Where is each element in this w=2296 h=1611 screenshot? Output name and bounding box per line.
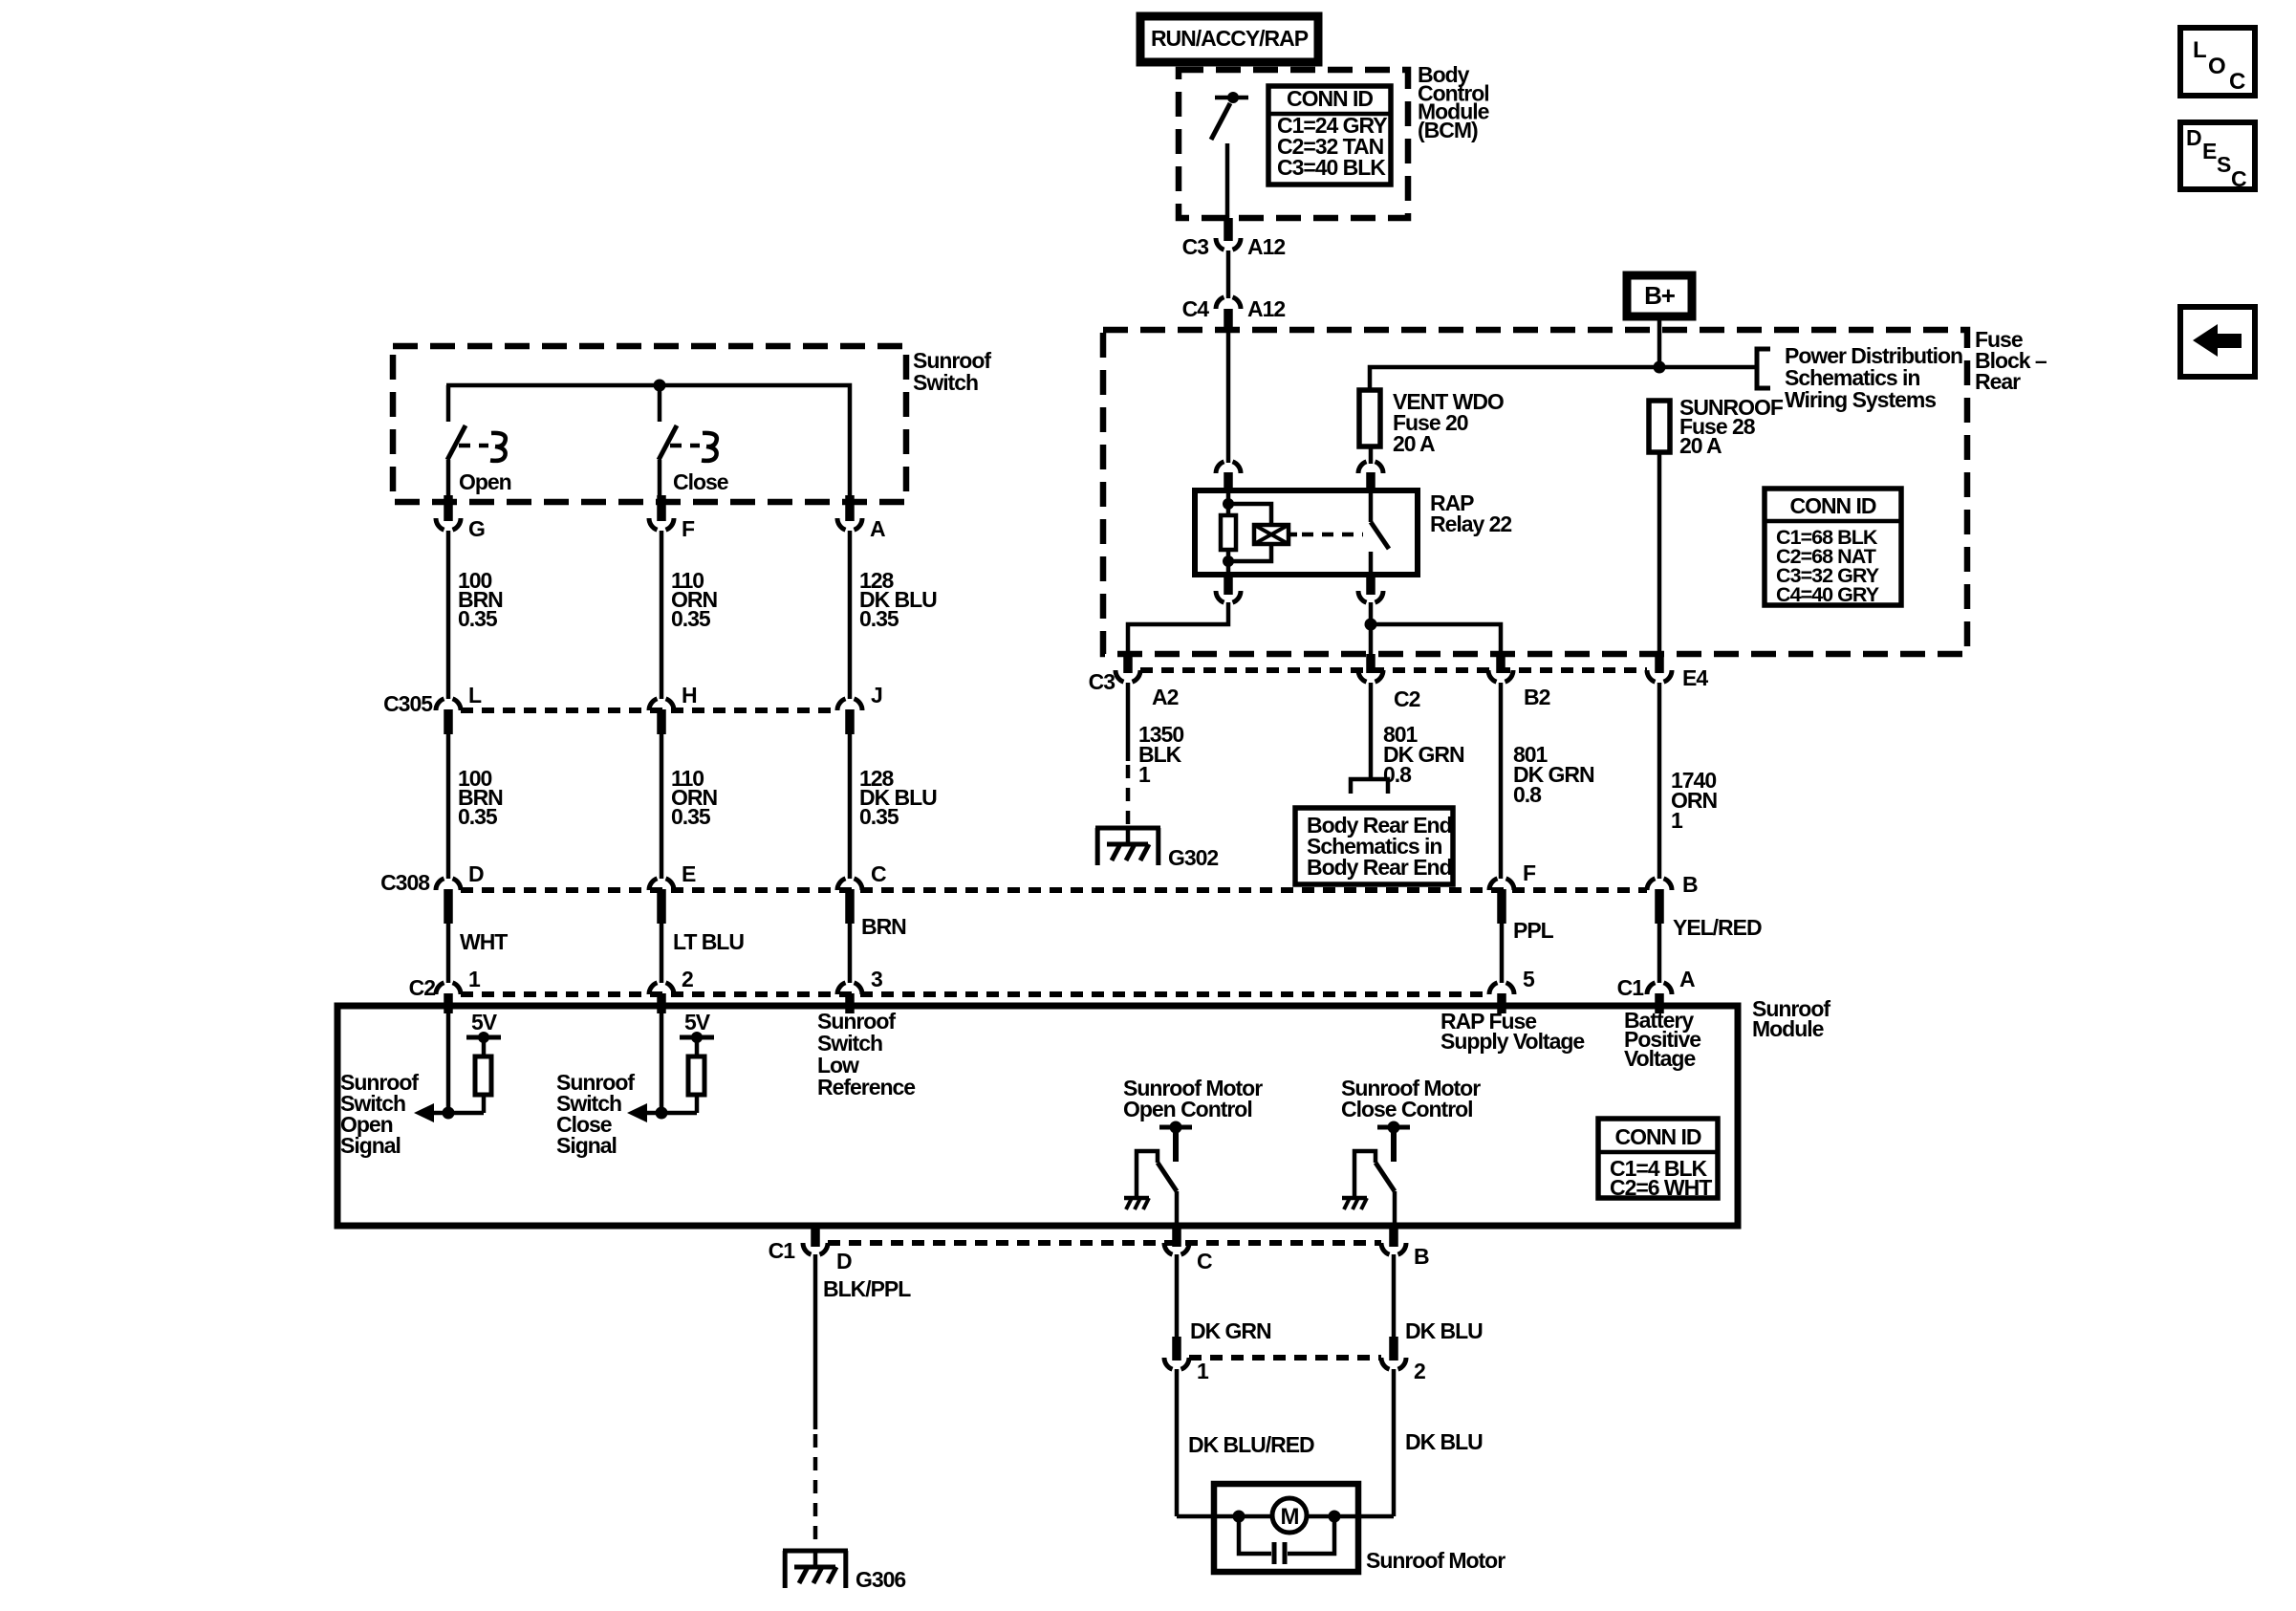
ground G302 bbox=[1095, 828, 1218, 870]
svg-text:B: B bbox=[1414, 1244, 1429, 1269]
svg-text:YEL/RED: YEL/RED bbox=[1673, 915, 1762, 940]
svg-text:0.8: 0.8 bbox=[1513, 782, 1542, 807]
label Fuse Block - Rear bbox=[1975, 327, 2047, 394]
driver switch Sunroof Motor Close Control bbox=[1342, 1121, 1410, 1227]
svg-text:C2: C2 bbox=[1394, 686, 1420, 711]
connector C308 pin B bbox=[1647, 872, 1698, 924]
svg-text:20 A: 20 A bbox=[1679, 433, 1722, 458]
label Sunroof Motor Close Control bbox=[1341, 1076, 1481, 1121]
wire PPL bbox=[1502, 913, 1554, 983]
svg-text:S: S bbox=[2217, 152, 2231, 177]
svg-text:DK BLU: DK BLU bbox=[1405, 1318, 1483, 1343]
svg-text:G306: G306 bbox=[856, 1567, 905, 1592]
svg-text:C2: C2 bbox=[409, 975, 436, 1000]
dashed actuator link in relay bbox=[1302, 533, 1363, 537]
svg-text:E: E bbox=[682, 861, 696, 886]
svg-text:Signal: Signal bbox=[340, 1133, 401, 1158]
wire 1740 ORN 1 bbox=[1659, 683, 1717, 879]
junction node under relay bbox=[1365, 619, 1377, 631]
svg-text:CONN ID: CONN ID bbox=[1790, 493, 1876, 518]
svg-text:2: 2 bbox=[682, 967, 693, 991]
svg-text:E: E bbox=[2202, 139, 2217, 163]
Sunroof Module box bbox=[337, 1006, 1738, 1226]
RAP Relay 22 bbox=[1195, 490, 1418, 575]
wire DK BLU (lower) bbox=[1394, 1369, 1483, 1516]
svg-text:Switch: Switch bbox=[913, 370, 978, 395]
svg-text:G: G bbox=[468, 516, 485, 541]
label Sunroof Switch bbox=[913, 348, 991, 395]
relay terminal connector top-left bbox=[1216, 462, 1241, 490]
CONN ID table (BCM) bbox=[1268, 86, 1391, 185]
Sunroof Switch dashed box bbox=[393, 346, 906, 502]
svg-text:0.35: 0.35 bbox=[859, 804, 899, 829]
suppression capacitor bbox=[1239, 1516, 1334, 1564]
svg-text:Wiring Systems: Wiring Systems bbox=[1785, 387, 1936, 412]
svg-text:M: M bbox=[1281, 1504, 1299, 1530]
svg-text:Relay 22: Relay 22 bbox=[1430, 512, 1511, 536]
svg-text:Sunroof Motor: Sunroof Motor bbox=[1366, 1548, 1505, 1573]
wire power distribution bus bbox=[1370, 367, 1757, 390]
switch Close bbox=[659, 385, 728, 495]
wire DK BLU (upper) bbox=[1394, 1254, 1483, 1343]
wire fuse 28 to connector E4 bbox=[1657, 452, 1662, 657]
connector C308 pin D bbox=[380, 861, 484, 924]
junction node motor left bbox=[1233, 1511, 1245, 1523]
bracket to Body Rear End reference bbox=[1351, 779, 1388, 794]
svg-text:B+: B+ bbox=[1644, 281, 1676, 310]
svg-text:1: 1 bbox=[1197, 1359, 1209, 1383]
connector pin E4 (rear fuse block) bbox=[1647, 654, 1708, 690]
connector C308 row dashes bbox=[461, 887, 1647, 893]
svg-text:A: A bbox=[1679, 967, 1695, 991]
wire 100 BRN 0.35 (lower) bbox=[448, 734, 503, 879]
svg-text:3: 3 bbox=[871, 967, 882, 991]
label Power Distribution Schematics in Wiring Systems bbox=[1785, 343, 1962, 412]
wire open signal input bbox=[446, 1013, 451, 1113]
svg-text:F: F bbox=[682, 516, 695, 541]
wire 100 BRN 0.35 (upper) bbox=[448, 531, 503, 699]
connector C308 pin C bbox=[837, 861, 886, 924]
svg-text:5: 5 bbox=[1523, 967, 1535, 991]
pull-up resistor 5V (open) bbox=[432, 1010, 501, 1113]
svg-text:Reference: Reference bbox=[817, 1075, 915, 1099]
bracket to Power Distribution reference bbox=[1757, 349, 1770, 388]
wire DK BLU/RED bbox=[1177, 1369, 1314, 1516]
svg-text:PPL: PPL bbox=[1513, 918, 1554, 943]
connector C1 pin C bbox=[1164, 1226, 1212, 1274]
Sunroof Motor box bbox=[1214, 1484, 1358, 1572]
junction node close signal bbox=[656, 1107, 668, 1120]
wire LT BLU bbox=[661, 913, 744, 983]
svg-text:2: 2 bbox=[1414, 1359, 1425, 1383]
svg-text:Voltage: Voltage bbox=[1624, 1046, 1695, 1071]
connector C2 pin 2 bbox=[649, 967, 693, 1013]
wire C4 into fuse block bbox=[1224, 309, 1233, 463]
connector C305 pin L bbox=[383, 683, 482, 734]
junction node motor right bbox=[1329, 1511, 1341, 1523]
svg-text:Body Rear End: Body Rear End bbox=[1307, 855, 1452, 880]
wire switch feed bus bbox=[446, 385, 850, 495]
svg-text:D: D bbox=[468, 861, 484, 886]
wire YEL/RED bbox=[1659, 913, 1762, 983]
wire DK GRN bbox=[1177, 1254, 1271, 1343]
ignition switch inside BCM bbox=[1211, 92, 1248, 218]
wire B+ to distribution node bbox=[1657, 316, 1662, 369]
label RAP Relay 22 bbox=[1430, 490, 1511, 536]
pull-up resistor 5V (close) bbox=[645, 1010, 714, 1113]
svg-text:Supply Voltage: Supply Voltage bbox=[1440, 1029, 1584, 1054]
svg-text:DK BLU/RED: DK BLU/RED bbox=[1188, 1432, 1314, 1457]
connector C1 pin A bbox=[1617, 967, 1695, 1013]
svg-text:LT BLU: LT BLU bbox=[673, 929, 744, 954]
label Sunroof Switch Low Reference bbox=[817, 1009, 915, 1099]
wire 801 DK GRN 0.8 (to body rear end) bbox=[1371, 683, 1464, 787]
svg-text:B: B bbox=[1682, 872, 1698, 897]
switch Open bbox=[447, 385, 511, 495]
svg-text:0.35: 0.35 bbox=[458, 804, 498, 829]
connector C305 row dashes bbox=[461, 708, 837, 713]
svg-text:A12: A12 bbox=[1247, 234, 1285, 259]
svg-text:C: C bbox=[1197, 1249, 1212, 1274]
wire C3 to C4 bbox=[1226, 250, 1231, 298]
power feed tab RUN/ACCY/RAP bbox=[1140, 16, 1318, 62]
connector pin F bbox=[649, 495, 695, 541]
svg-text:WHT: WHT bbox=[460, 929, 508, 954]
Fuse Block - Rear dashed box bbox=[1103, 330, 1967, 654]
label Battery Positive Voltage bbox=[1624, 1008, 1700, 1071]
wire 1350 BLK 1 to ground bbox=[1128, 683, 1183, 826]
arrow Sunroof Switch Open Signal bbox=[414, 1103, 434, 1122]
connector pin B2 (rear fuse block) bbox=[1488, 654, 1550, 709]
junction node on feed bus bbox=[654, 380, 666, 392]
svg-text:G302: G302 bbox=[1168, 845, 1218, 870]
svg-text:O: O bbox=[2208, 54, 2225, 79]
svg-text:DK GRN: DK GRN bbox=[1190, 1318, 1271, 1343]
label RAP Fuse Supply Voltage bbox=[1440, 1009, 1584, 1054]
wire close signal input bbox=[660, 1013, 664, 1113]
connector C305 pin H bbox=[649, 683, 697, 734]
svg-text:DK BLU: DK BLU bbox=[1405, 1429, 1483, 1454]
svg-text:0.35: 0.35 bbox=[671, 606, 711, 631]
svg-text:C3=40 BLK: C3=40 BLK bbox=[1277, 155, 1386, 180]
svg-text:D: D bbox=[2186, 125, 2201, 150]
connector pin G bbox=[436, 495, 485, 541]
svg-text:C4: C4 bbox=[1182, 296, 1210, 321]
svg-text:Open Control: Open Control bbox=[1123, 1097, 1252, 1121]
legend box LOC bbox=[2180, 28, 2255, 96]
svg-text:H: H bbox=[682, 683, 697, 708]
legend box DESC bbox=[2180, 122, 2255, 191]
connector C1 row dashes bbox=[828, 1240, 1381, 1246]
label Body Control Module (BCM) bbox=[1418, 62, 1489, 142]
svg-text:C4=40 GRY: C4=40 GRY bbox=[1776, 583, 1879, 606]
connector pin C2 (rear fuse block) bbox=[1358, 654, 1420, 711]
svg-text:20 A: 20 A bbox=[1393, 431, 1435, 456]
svg-text:F: F bbox=[1523, 860, 1536, 885]
wire BRN bbox=[850, 913, 906, 983]
wire 801 DK GRN 0.8 (to sunroof module) bbox=[1501, 683, 1594, 879]
relay output connector bottom-right bbox=[1358, 575, 1383, 602]
wire BLK/PPL to ground bbox=[815, 1254, 911, 1547]
wire 128 DK BLU 0.35 (upper) bbox=[850, 531, 937, 699]
svg-text:BRN: BRN bbox=[861, 914, 906, 939]
svg-text:1: 1 bbox=[1671, 808, 1683, 833]
svg-text:Module: Module bbox=[1752, 1016, 1824, 1041]
svg-text:CONN ID: CONN ID bbox=[1615, 1124, 1701, 1149]
svg-text:C: C bbox=[871, 861, 886, 886]
svg-text:C: C bbox=[2229, 69, 2245, 95]
motor connector pin 1 bbox=[1164, 1337, 1209, 1383]
svg-text:Rear: Rear bbox=[1975, 369, 2021, 394]
svg-text:C1: C1 bbox=[1617, 975, 1645, 1000]
connector pin A bbox=[837, 495, 885, 541]
connector row dashes (fuse block outputs) bbox=[1140, 667, 1647, 673]
svg-text:Close Control: Close Control bbox=[1341, 1097, 1473, 1121]
svg-text:C308: C308 bbox=[380, 870, 430, 895]
connector C2 pin 3 bbox=[837, 967, 882, 1013]
wire 110 ORN 0.35 (upper) bbox=[661, 531, 717, 699]
junction node on B+ feed bbox=[1654, 361, 1666, 374]
svg-text:C3: C3 bbox=[1089, 669, 1116, 694]
svg-text:A2: A2 bbox=[1152, 685, 1179, 709]
svg-text:C3: C3 bbox=[1182, 234, 1209, 259]
connector C2 pin 5 bbox=[1489, 967, 1535, 1013]
connector C305 pin J bbox=[837, 683, 882, 734]
connector C3 pin A2 bbox=[1089, 654, 1179, 709]
svg-text:1: 1 bbox=[1138, 762, 1151, 787]
svg-text:C2=6 WHT: C2=6 WHT bbox=[1610, 1175, 1712, 1200]
svg-text:L: L bbox=[468, 683, 482, 708]
connector C3 pin A12 bbox=[1182, 234, 1286, 259]
svg-text:J: J bbox=[871, 683, 882, 708]
label Sunroof Motor Open Control bbox=[1123, 1076, 1263, 1121]
arrow Sunroof Switch Close Signal bbox=[627, 1103, 647, 1122]
svg-text:C305: C305 bbox=[383, 691, 433, 716]
connector C308 pin E bbox=[649, 861, 696, 924]
wire WHT bbox=[448, 913, 508, 983]
motor connector row dashes bbox=[1189, 1355, 1381, 1361]
driver switch Sunroof Motor Open Control bbox=[1124, 1121, 1192, 1227]
reference box Body Rear End Schematics in Body Rear End bbox=[1295, 808, 1453, 884]
wire 110 ORN 0.35 (lower) bbox=[661, 734, 717, 879]
relay output connector bottom-left bbox=[1216, 575, 1241, 602]
fuse SUNROOF Fuse 28 20 A bbox=[1649, 395, 1784, 458]
svg-text:L: L bbox=[2193, 37, 2206, 63]
junction node open signal bbox=[443, 1107, 455, 1120]
ground G306 bbox=[783, 1551, 905, 1592]
wire relay coil to connector C3 pin A2 bbox=[1128, 602, 1228, 657]
relay terminal connector top-right bbox=[1358, 462, 1383, 490]
wire motor supply bbox=[1177, 1514, 1394, 1519]
legend box back-arrow bbox=[2180, 307, 2255, 377]
svg-text:0.35: 0.35 bbox=[859, 606, 899, 631]
svg-text:Signal: Signal bbox=[556, 1133, 617, 1158]
wire branch to pin B2 bbox=[1371, 624, 1501, 657]
svg-text:(BCM): (BCM) bbox=[1418, 118, 1478, 142]
svg-text:D: D bbox=[836, 1249, 852, 1274]
label Sunroof Switch Open Signal bbox=[340, 1070, 419, 1158]
wire fuse 20 to relay bbox=[1369, 446, 1374, 464]
Body Control Module (BCM) dashed box bbox=[1179, 70, 1408, 218]
label Sunroof Switch Close Signal bbox=[556, 1070, 635, 1158]
connector C1 pin B bbox=[1381, 1226, 1429, 1269]
motor M bbox=[1272, 1498, 1307, 1533]
label Sunroof Module bbox=[1752, 996, 1830, 1041]
CONN ID table (sunroof module) bbox=[1598, 1119, 1718, 1200]
svg-text:B2: B2 bbox=[1524, 685, 1550, 709]
svg-text:C: C bbox=[2231, 166, 2246, 191]
svg-text:Close: Close bbox=[673, 469, 728, 494]
svg-text:A12: A12 bbox=[1247, 296, 1285, 321]
connector C4 pin A12 bbox=[1182, 296, 1286, 321]
wire relay switch to C2 and B2 bbox=[1369, 602, 1374, 657]
connector C1 pin D bbox=[769, 1226, 852, 1274]
connector C2 pin 1 bbox=[409, 967, 481, 1013]
svg-text:CONN ID: CONN ID bbox=[1287, 86, 1373, 111]
svg-text:0.35: 0.35 bbox=[458, 606, 498, 631]
svg-text:5V: 5V bbox=[684, 1010, 711, 1034]
connector C2 row dashes bbox=[461, 991, 1489, 997]
power tab B+ bbox=[1627, 275, 1692, 316]
svg-text:C1: C1 bbox=[769, 1238, 796, 1263]
label Sunroof Motor bbox=[1366, 1548, 1505, 1573]
CONN ID table (fuse block) bbox=[1765, 489, 1901, 606]
fuse VENT WDO Fuse 20 20 A bbox=[1359, 389, 1504, 456]
connector C308 pin F bbox=[1489, 860, 1536, 924]
svg-text:1: 1 bbox=[468, 967, 481, 991]
svg-text:RUN/ACCY/RAP: RUN/ACCY/RAP bbox=[1151, 26, 1309, 51]
svg-text:0.35: 0.35 bbox=[671, 804, 711, 829]
svg-text:5V: 5V bbox=[471, 1010, 498, 1034]
motor connector pin 2 bbox=[1381, 1337, 1425, 1383]
wire BCM pin to connector C3 bbox=[1224, 218, 1233, 241]
wire 128 DK BLU 0.35 (lower) bbox=[850, 734, 937, 879]
svg-text:Open: Open bbox=[459, 469, 511, 494]
svg-text:BLK/PPL: BLK/PPL bbox=[823, 1276, 911, 1301]
svg-text:A: A bbox=[870, 516, 885, 541]
svg-text:E4: E4 bbox=[1682, 665, 1708, 690]
